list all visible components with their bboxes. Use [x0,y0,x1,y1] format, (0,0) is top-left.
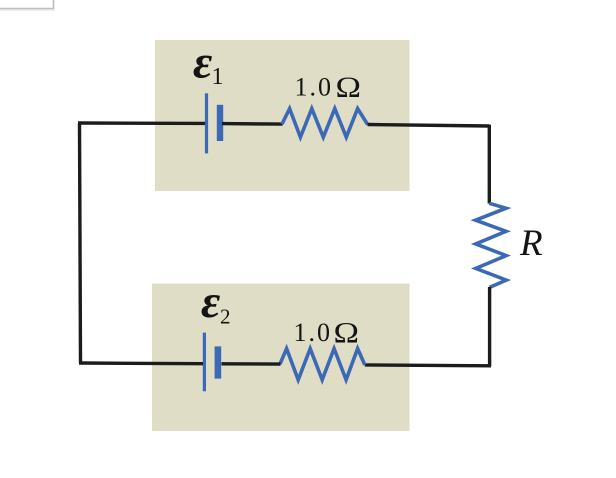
wire: right vertical lower (resistor R to bottom corner) [488,287,491,366]
wire: top left segment (loop corner to battery E1) [78,121,206,125]
wire: bottom right segment (corner to resistor R2) [365,363,491,367]
wire: between battery E1 and resistor R1 [222,122,283,126]
wire: left vertical (node a to node b side) [80,123,81,363]
value label 1.0 Ω (bottom) [294,317,360,350]
svg-text:R: R [519,223,543,264]
highlight box (bottom battery branch) [152,284,410,432]
wire: resistor R1 to top-right corner [368,125,490,127]
label ε1 [193,37,224,91]
battery E1 (emf source) [207,93,224,153]
svg-text:1.0: 1.0 [295,73,334,102]
value label 1.0 Ω (top) [295,71,362,104]
wire: bottom left segment (battery E2 to loop corner) [79,361,203,365]
resistor R2 (1.0 ohm, bottom) [280,349,365,380]
svg-text:Ω: Ω [336,71,362,104]
svg-text:ε: ε [201,276,220,328]
window frame corner (top-left UI remnant) [0,0,55,10]
battery E2 (emf source) [204,333,221,392]
label ε2 [201,276,231,329]
svg-text:1.0: 1.0 [294,318,333,347]
resistor R (load, right side) [476,203,507,287]
highlight box (top battery branch) [155,40,410,191]
svg-text:2: 2 [220,305,231,329]
label R [519,223,543,264]
svg-text:1: 1 [212,64,224,90]
svg-text:ε: ε [193,37,212,89]
resistor R1 (1.0 ohm, top) [282,109,368,138]
svg-text:Ω: Ω [334,317,360,350]
wire: between battery E2 and resistor R2 [222,362,281,366]
wire: right vertical upper (corner to resistor R) [488,125,491,204]
